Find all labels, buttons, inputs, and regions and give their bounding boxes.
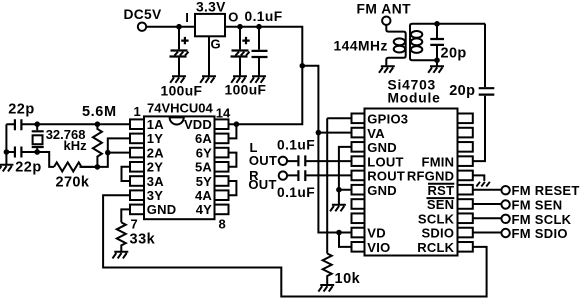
svg-text:Module: Module — [388, 91, 441, 106]
svg-text:4A: 4A — [195, 188, 212, 203]
svg-text:3.3V: 3.3V — [196, 0, 226, 14]
svg-text:2Y: 2Y — [147, 160, 163, 175]
svg-text:100uF: 100uF — [225, 83, 267, 98]
svg-text:33k: 33k — [130, 232, 156, 248]
svg-text:7: 7 — [131, 217, 138, 232]
svg-text:kHz: kHz — [64, 138, 88, 153]
svg-text:FM SDIO: FM SDIO — [512, 226, 568, 241]
svg-text:FMIN: FMIN — [422, 154, 455, 169]
svg-text:144MHz: 144MHz — [334, 39, 388, 54]
svg-text:0.1uF: 0.1uF — [277, 185, 315, 200]
svg-text:3Y: 3Y — [147, 188, 163, 203]
svg-text:DC5V: DC5V — [124, 7, 163, 22]
svg-text:270k: 270k — [56, 174, 90, 190]
svg-text:FM SEN: FM SEN — [512, 198, 563, 213]
svg-text:2A: 2A — [147, 145, 164, 160]
svg-text:RST: RST — [428, 183, 455, 198]
svg-text:FM SCLK: FM SCLK — [512, 212, 572, 227]
svg-text:SEN: SEN — [427, 197, 454, 212]
svg-text:22p: 22p — [8, 102, 35, 118]
svg-text:0.1uF: 0.1uF — [245, 9, 283, 24]
svg-text:VD: VD — [367, 226, 386, 241]
svg-text:5.6M: 5.6M — [82, 104, 117, 120]
svg-text:OUT: OUT — [248, 177, 276, 192]
svg-text:5A: 5A — [195, 160, 212, 175]
svg-text:LOUT: LOUT — [367, 154, 403, 169]
svg-text:GND: GND — [367, 183, 397, 198]
svg-text:I: I — [185, 10, 189, 25]
svg-text:FM ANT: FM ANT — [357, 2, 412, 17]
svg-text:10k: 10k — [335, 271, 361, 287]
svg-text:VA: VA — [367, 126, 385, 141]
svg-text:22p: 22p — [15, 160, 42, 176]
svg-text:GPIO3: GPIO3 — [367, 112, 408, 127]
svg-text:14: 14 — [216, 105, 231, 120]
svg-text:RCLK: RCLK — [417, 240, 454, 255]
svg-text:1: 1 — [134, 104, 141, 119]
svg-text:RFGND: RFGND — [407, 169, 454, 184]
svg-text:6A: 6A — [195, 131, 212, 146]
svg-text:6Y: 6Y — [196, 145, 212, 160]
svg-text:GND: GND — [367, 140, 397, 155]
svg-text:100uF: 100uF — [161, 84, 203, 99]
svg-text:3A: 3A — [147, 174, 164, 189]
svg-text:8: 8 — [219, 217, 226, 232]
svg-text:FM RESET: FM RESET — [512, 183, 580, 198]
svg-text:OUT: OUT — [249, 153, 277, 168]
svg-text:1Y: 1Y — [147, 131, 163, 146]
svg-text:1A: 1A — [147, 117, 164, 132]
svg-text:SDIO: SDIO — [422, 226, 455, 241]
svg-text:74VHCU04: 74VHCU04 — [147, 100, 214, 115]
svg-text:20p: 20p — [441, 46, 467, 62]
svg-text:GND: GND — [147, 202, 177, 217]
svg-text:ROUT: ROUT — [367, 169, 405, 184]
svg-text:VDD: VDD — [184, 117, 212, 132]
svg-text:0.1uF: 0.1uF — [277, 138, 315, 153]
svg-text:VIO: VIO — [367, 240, 390, 255]
svg-text:G: G — [211, 37, 221, 52]
svg-text:5Y: 5Y — [196, 174, 212, 189]
svg-text:SCLK: SCLK — [418, 212, 455, 227]
svg-text:4Y: 4Y — [196, 202, 212, 217]
svg-text:O: O — [228, 9, 238, 24]
svg-text:20p: 20p — [449, 83, 475, 99]
